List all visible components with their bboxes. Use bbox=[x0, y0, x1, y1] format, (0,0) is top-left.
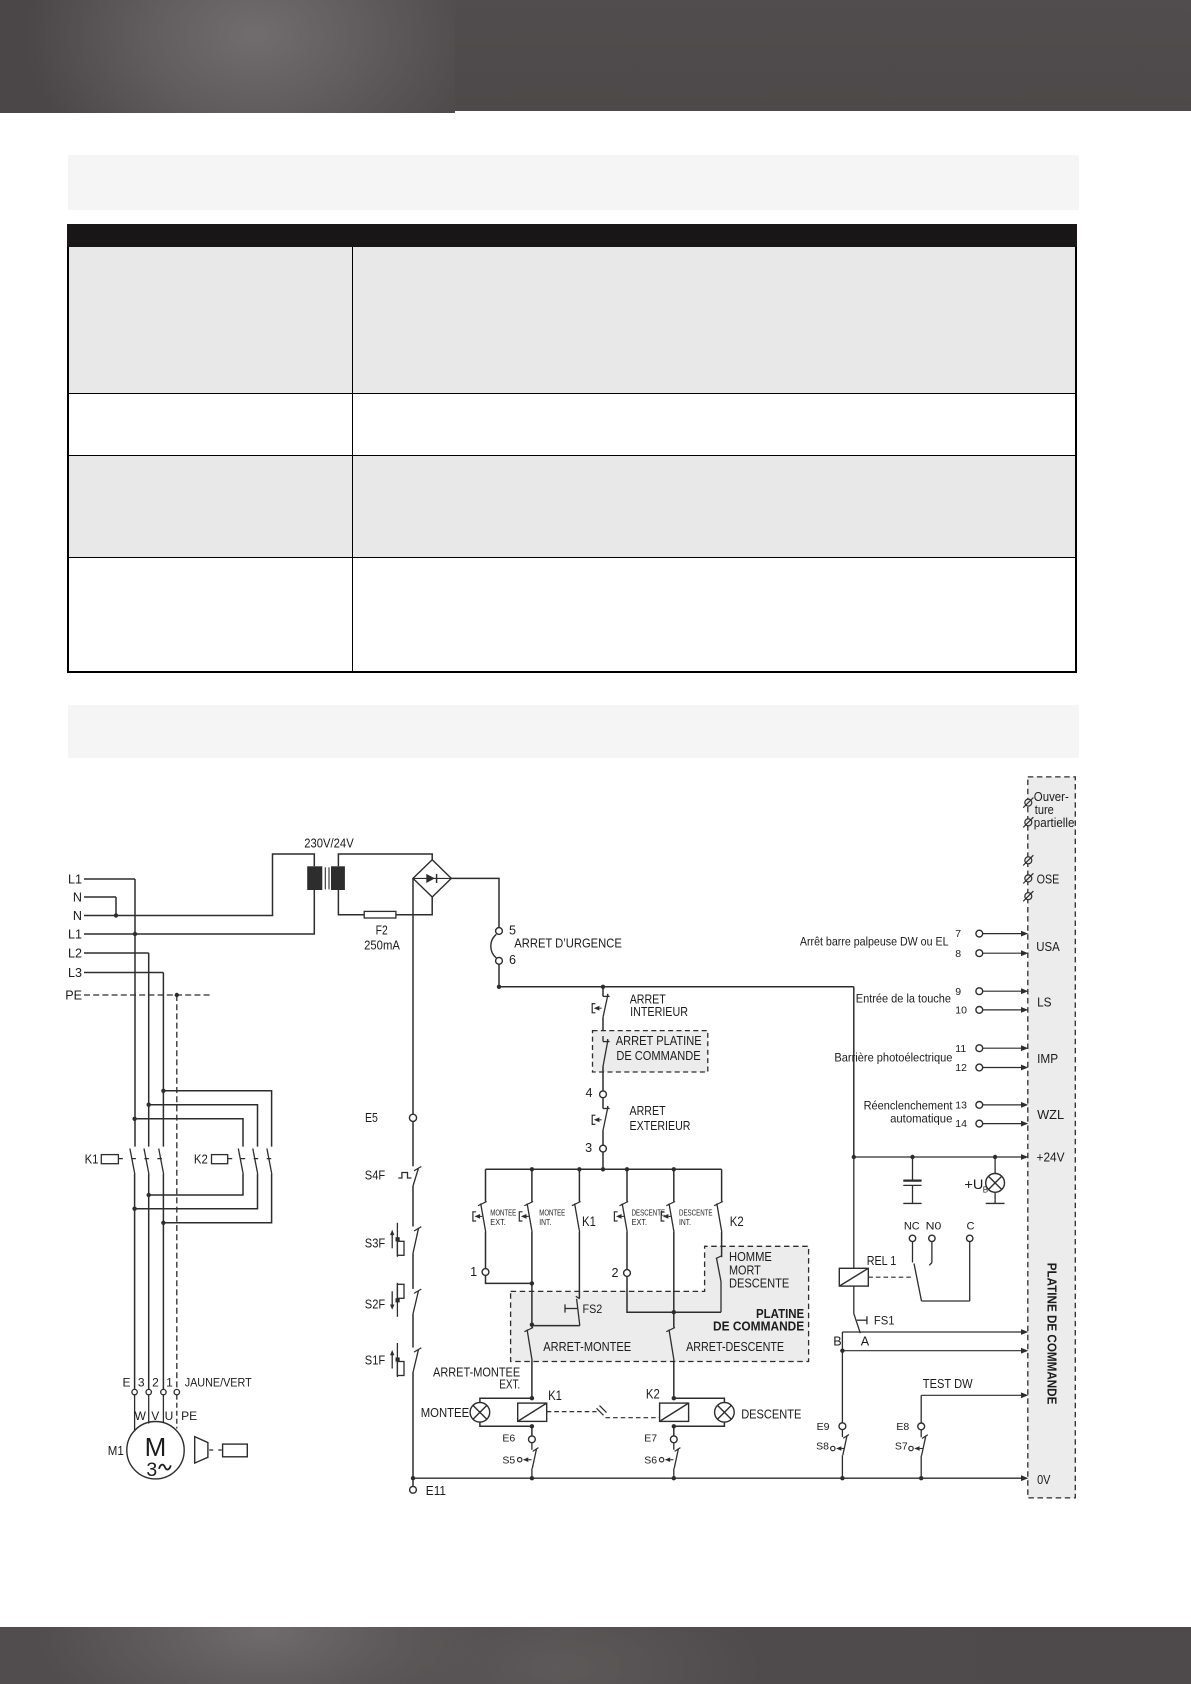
svg-text:1: 1 bbox=[166, 1375, 173, 1389]
svg-text:11: 11 bbox=[955, 1043, 966, 1055]
svg-text:S7: S7 bbox=[895, 1440, 908, 1452]
svg-text:automatique: automatique bbox=[890, 1112, 952, 1126]
svg-text:S6: S6 bbox=[644, 1454, 657, 1466]
svg-text:6: 6 bbox=[509, 953, 516, 967]
svg-text:PE: PE bbox=[181, 1409, 197, 1423]
svg-text:MONTEE: MONTEE bbox=[539, 1208, 565, 1217]
svg-text:E6: E6 bbox=[502, 1433, 515, 1445]
svg-text:HOMME: HOMME bbox=[729, 1250, 772, 1264]
svg-text:DESCENTE: DESCENTE bbox=[679, 1208, 713, 1217]
svg-text:S2F: S2F bbox=[365, 1297, 385, 1312]
svg-text:ARRET-MONTEE: ARRET-MONTEE bbox=[543, 1340, 631, 1354]
svg-text:3: 3 bbox=[138, 1375, 145, 1389]
svg-text:E: E bbox=[122, 1375, 130, 1389]
svg-text:EXTERIEUR: EXTERIEUR bbox=[630, 1119, 691, 1133]
svg-text:4: 4 bbox=[585, 1086, 592, 1100]
svg-text:DE COMMANDE: DE COMMANDE bbox=[713, 1320, 804, 1334]
svg-text:12: 12 bbox=[955, 1062, 967, 1074]
svg-text:+U: +U bbox=[964, 1176, 983, 1192]
svg-text:K1: K1 bbox=[582, 1214, 596, 1229]
svg-text:ARRET PLATINE: ARRET PLATINE bbox=[616, 1034, 702, 1048]
svg-text:K1: K1 bbox=[548, 1387, 562, 1403]
svg-text:EXT.: EXT. bbox=[499, 1378, 520, 1392]
svg-text:partielle: partielle bbox=[1034, 815, 1075, 830]
svg-text:W: W bbox=[135, 1409, 147, 1423]
svg-text:L3: L3 bbox=[68, 966, 82, 980]
svg-text:USA: USA bbox=[1036, 939, 1060, 954]
svg-text:INT.: INT. bbox=[679, 1218, 691, 1227]
svg-text:EXT.: EXT. bbox=[632, 1218, 648, 1227]
svg-text:Réenclenchement: Réenclenchement bbox=[864, 1099, 953, 1113]
svg-text:3: 3 bbox=[146, 1459, 157, 1481]
svg-text:Arrêt barre palpeuse DW ou EL: Arrêt barre palpeuse DW ou EL bbox=[800, 935, 949, 949]
svg-text:C: C bbox=[966, 1220, 974, 1232]
svg-text:E8: E8 bbox=[896, 1421, 909, 1433]
svg-text:S1F: S1F bbox=[365, 1353, 385, 1368]
svg-text:3: 3 bbox=[585, 1141, 592, 1155]
svg-text:L2: L2 bbox=[68, 946, 82, 960]
svg-text:PE: PE bbox=[65, 988, 82, 1002]
svg-text:14: 14 bbox=[955, 1118, 967, 1130]
svg-text:E7: E7 bbox=[644, 1433, 657, 1445]
svg-text:S4F: S4F bbox=[365, 1167, 385, 1182]
svg-text:FS1: FS1 bbox=[874, 1314, 895, 1328]
svg-text:8: 8 bbox=[955, 948, 961, 960]
svg-text:13: 13 bbox=[955, 1100, 967, 1112]
svg-text:INT.: INT. bbox=[539, 1218, 551, 1227]
svg-text:N0: N0 bbox=[926, 1220, 942, 1232]
svg-text:+24V: +24V bbox=[1037, 1150, 1065, 1165]
svg-text:DESCENTE: DESCENTE bbox=[632, 1208, 666, 1217]
svg-text:V: V bbox=[151, 1409, 159, 1423]
svg-text:2: 2 bbox=[152, 1375, 159, 1389]
svg-text:LS: LS bbox=[1037, 994, 1052, 1009]
svg-text:M: M bbox=[145, 1432, 167, 1462]
svg-text:EXT.: EXT. bbox=[490, 1218, 506, 1227]
svg-text:REL 1: REL 1 bbox=[867, 1254, 897, 1268]
svg-text:Entrée de la touche: Entrée de la touche bbox=[856, 992, 951, 1006]
svg-text:K1: K1 bbox=[85, 1153, 99, 1167]
svg-text:ARRET: ARRET bbox=[630, 1104, 666, 1118]
svg-text:M1: M1 bbox=[108, 1444, 124, 1458]
svg-text:JAUNE/VERT: JAUNE/VERT bbox=[185, 1375, 253, 1389]
svg-text:WZL: WZL bbox=[1037, 1107, 1064, 1122]
svg-text:TEST DW: TEST DW bbox=[923, 1377, 973, 1391]
svg-text:L1: L1 bbox=[68, 927, 82, 941]
svg-text:NC: NC bbox=[904, 1220, 920, 1232]
svg-text:2: 2 bbox=[611, 1266, 618, 1280]
svg-text:230V/24V: 230V/24V bbox=[304, 837, 354, 851]
svg-text:Barrière photoélectrique: Barrière photoélectrique bbox=[834, 1051, 952, 1065]
svg-text:MONTEE: MONTEE bbox=[421, 1405, 470, 1420]
svg-text:0V: 0V bbox=[1037, 1472, 1051, 1487]
svg-text:OSE: OSE bbox=[1037, 872, 1060, 887]
svg-text:MORT: MORT bbox=[729, 1263, 761, 1277]
svg-text:PLATINE DE COMMANDE: PLATINE DE COMMANDE bbox=[1044, 1263, 1059, 1405]
svg-text:B: B bbox=[833, 1334, 841, 1348]
svg-text:DE COMMANDE: DE COMMANDE bbox=[616, 1049, 700, 1063]
svg-text:F2: F2 bbox=[376, 923, 388, 937]
svg-text:10: 10 bbox=[955, 1005, 967, 1017]
svg-text:DESCENTE: DESCENTE bbox=[729, 1276, 789, 1290]
svg-text:K2: K2 bbox=[646, 1386, 660, 1402]
svg-text:FS2: FS2 bbox=[583, 1302, 603, 1316]
svg-text:S5: S5 bbox=[502, 1454, 515, 1466]
svg-text:INTERIEUR: INTERIEUR bbox=[630, 1005, 688, 1019]
svg-text:U: U bbox=[165, 1409, 174, 1423]
svg-text:250mA: 250mA bbox=[364, 938, 400, 952]
svg-text:A: A bbox=[861, 1334, 870, 1348]
svg-text:5: 5 bbox=[509, 923, 516, 937]
svg-text:S8: S8 bbox=[816, 1440, 829, 1452]
svg-text:L1: L1 bbox=[68, 872, 82, 886]
svg-text:E9: E9 bbox=[817, 1421, 830, 1433]
svg-text:DESCENTE: DESCENTE bbox=[741, 1407, 802, 1422]
svg-text:MONTEE: MONTEE bbox=[490, 1208, 516, 1217]
svg-text:7: 7 bbox=[955, 928, 961, 940]
svg-text:B: B bbox=[983, 1185, 988, 1194]
svg-text:K2: K2 bbox=[730, 1214, 744, 1229]
svg-text:ARRET-DESCENTE: ARRET-DESCENTE bbox=[686, 1340, 784, 1354]
svg-text:S3F: S3F bbox=[365, 1236, 385, 1251]
svg-text:N: N bbox=[73, 909, 82, 923]
svg-text:N: N bbox=[73, 890, 82, 904]
svg-text:IMP: IMP bbox=[1037, 1051, 1058, 1066]
svg-text:E5: E5 bbox=[365, 1110, 378, 1125]
svg-text:K2: K2 bbox=[194, 1153, 208, 1167]
svg-text:ARRET D’URGENCE: ARRET D’URGENCE bbox=[514, 937, 622, 951]
svg-text:9: 9 bbox=[955, 986, 961, 998]
svg-text:1: 1 bbox=[470, 1265, 477, 1279]
svg-text:E11: E11 bbox=[426, 1484, 446, 1498]
